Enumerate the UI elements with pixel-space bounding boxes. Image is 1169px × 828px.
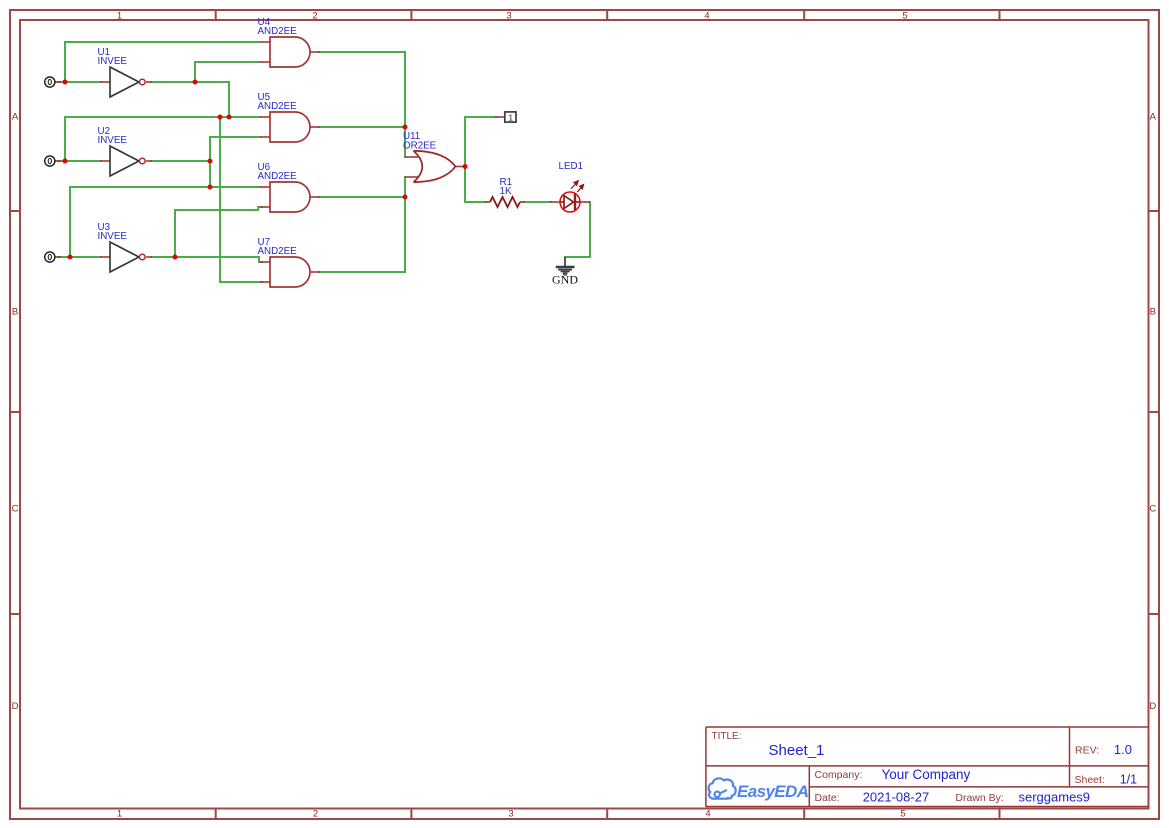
svg-text:1: 1	[117, 11, 122, 22]
svg-text:AND2EE: AND2EE	[258, 246, 298, 257]
svg-text:C: C	[1149, 504, 1156, 515]
svg-text:AND2EE: AND2EE	[258, 101, 298, 112]
svg-text:Date:: Date:	[815, 792, 840, 804]
svg-text:serggames9: serggames9	[1019, 790, 1091, 805]
svg-text:2: 2	[313, 809, 318, 820]
svg-text:1.0: 1.0	[1114, 742, 1132, 757]
svg-text:D: D	[1149, 701, 1156, 712]
svg-text:A: A	[12, 111, 19, 122]
svg-text:1: 1	[508, 112, 513, 122]
svg-text:INVEE: INVEE	[98, 56, 128, 67]
svg-text:AND2EE: AND2EE	[258, 171, 298, 182]
svg-text:C: C	[12, 504, 19, 515]
svg-text:Sheet_1: Sheet_1	[769, 742, 825, 759]
svg-text:2: 2	[312, 11, 317, 22]
svg-text:5: 5	[902, 11, 907, 22]
svg-text:Drawn By:: Drawn By:	[955, 792, 1003, 804]
svg-text:EasyEDA: EasyEDA	[737, 782, 809, 801]
svg-text:OR2EE: OR2EE	[403, 141, 437, 152]
svg-text:1K: 1K	[500, 186, 512, 197]
svg-text:GND: GND	[552, 273, 578, 287]
svg-text:A: A	[1150, 111, 1157, 122]
svg-text:3: 3	[508, 809, 513, 820]
svg-text:LED1: LED1	[559, 161, 584, 172]
svg-text:TITLE:: TITLE:	[712, 731, 742, 742]
svg-text:D: D	[12, 701, 19, 712]
svg-text:B: B	[1150, 307, 1156, 318]
svg-text:4: 4	[705, 809, 710, 820]
svg-text:2021-08-27: 2021-08-27	[863, 790, 930, 805]
svg-text:B: B	[12, 307, 18, 318]
svg-text:AND2EE: AND2EE	[258, 26, 298, 37]
svg-text:INVEE: INVEE	[98, 135, 128, 146]
svg-text:1: 1	[117, 809, 122, 820]
svg-text:REV:: REV:	[1075, 745, 1099, 757]
svg-text:Company:: Company:	[815, 769, 863, 781]
svg-text:1/1: 1/1	[1120, 772, 1137, 786]
svg-text:3: 3	[506, 11, 511, 22]
svg-text:INVEE: INVEE	[98, 231, 128, 242]
svg-text:5: 5	[900, 809, 905, 820]
svg-text:Your Company: Your Company	[882, 767, 971, 782]
svg-text:Sheet:: Sheet:	[1075, 774, 1105, 786]
svg-text:4: 4	[704, 11, 709, 22]
